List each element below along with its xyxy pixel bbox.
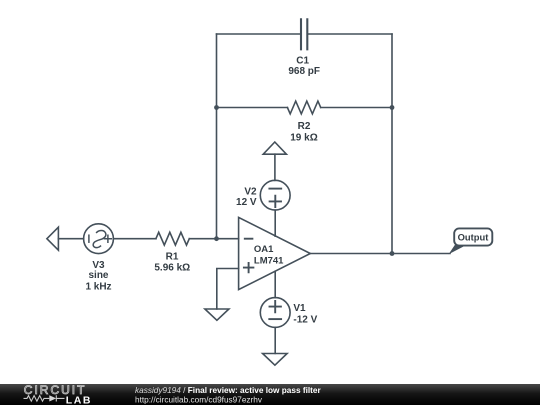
voltage source V2 (260, 180, 290, 210)
wire V2 to op-amp (274, 210, 276, 236)
node junction R2 left (214, 105, 219, 110)
node Output flag (449, 244, 468, 254)
resistor R1 (156, 232, 189, 245)
wire R2 left (217, 107, 288, 109)
ground below V1 (263, 354, 288, 366)
wire top-right feedback (307, 33, 392, 35)
wire right vertical feedback (391, 34, 393, 254)
node junction input (214, 236, 219, 241)
svg-text:12 V: 12 V (236, 197, 257, 208)
ground left (input) (47, 227, 59, 250)
wire left vertical feedback (216, 34, 218, 239)
op-amp OA1 triangle (239, 217, 311, 289)
svg-text:sine: sine (88, 270, 108, 281)
wire top-left feedback (217, 33, 301, 35)
node junction R2 right (390, 105, 395, 110)
svg-text:Output: Output (458, 231, 489, 242)
wire VCC to V2 (274, 154, 276, 180)
svg-text:1 kHz: 1 kHz (85, 281, 111, 292)
logo wire with resistor and diode (24, 395, 65, 401)
svg-text:R2: R2 (298, 121, 311, 132)
svg-text:OA1: OA1 (254, 244, 274, 255)
svg-text:19 kΩ: 19 kΩ (290, 132, 317, 143)
svg-text:C1: C1 (296, 55, 309, 66)
svg-text:kassidy9194 / Final review: ac: kassidy9194 / Final review: active low p… (135, 386, 322, 395)
wire ground to V3 (58, 238, 83, 240)
wire R1 to op-amp inverting input (189, 238, 238, 240)
svg-text:V1: V1 (293, 303, 306, 314)
wire op-amp to V1 (274, 271, 276, 297)
op-amp OA1 inverting/non-inverting pin marks (244, 239, 254, 273)
voltage source V1 (260, 298, 290, 328)
resistor R2 (287, 101, 320, 114)
wire R2 right (321, 107, 392, 109)
footer bar (0, 384, 540, 405)
power VCC arrow (263, 142, 286, 154)
wire op-amp noninverting input to ground (217, 269, 239, 309)
footer credits (135, 386, 322, 404)
ground at noninverting input (205, 309, 229, 320)
svg-text:5.96 kΩ: 5.96 kΩ (154, 263, 190, 274)
capacitor C1 (301, 19, 307, 49)
svg-text:R1: R1 (166, 252, 179, 263)
wire op-amp output (310, 253, 450, 255)
voltage source V3 sine (84, 224, 114, 254)
node junction output (390, 251, 395, 256)
svg-text:LAB: LAB (66, 394, 92, 405)
wire V3 to R1 (113, 238, 155, 240)
svg-text:http://circuitlab.com/cd9fus97: http://circuitlab.com/cd9fus97ezrhv (135, 395, 263, 404)
wire V1 to ground (274, 327, 276, 353)
svg-text:V2: V2 (244, 187, 257, 198)
svg-text:968 pF: 968 pF (288, 66, 320, 77)
svg-text:-12 V: -12 V (293, 314, 317, 325)
svg-text:LM741: LM741 (254, 256, 284, 267)
